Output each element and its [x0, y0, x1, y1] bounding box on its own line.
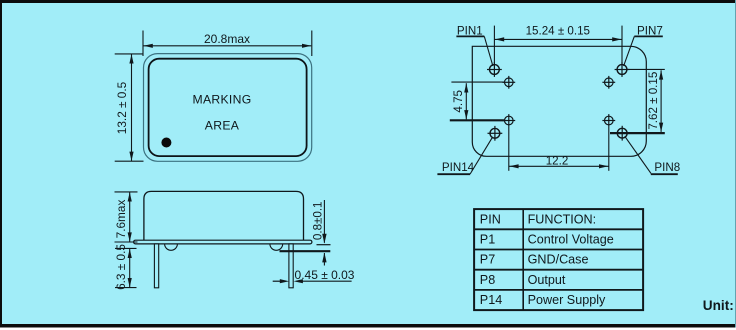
svg-text:Output: Output: [528, 273, 566, 287]
svg-text:PIN7: PIN7: [637, 24, 663, 37]
svg-text:0.8±0.1: 0.8±0.1: [311, 201, 324, 240]
svg-text:20.8max: 20.8max: [204, 32, 250, 46]
svg-text:PIN: PIN: [480, 212, 501, 226]
svg-text:P8: P8: [480, 273, 495, 287]
svg-text:FUNCTION:: FUNCTION:: [528, 212, 597, 226]
svg-text:PIN1: PIN1: [457, 24, 483, 37]
svg-text:GND/Case: GND/Case: [528, 253, 589, 267]
svg-text:P1: P1: [480, 233, 495, 247]
svg-text:13.2 ± 0.5: 13.2 ± 0.5: [115, 81, 129, 134]
svg-text:MARKING: MARKING: [193, 92, 252, 106]
svg-text:PIN8: PIN8: [654, 161, 680, 174]
svg-text:0.45 ± 0.03: 0.45 ± 0.03: [295, 268, 355, 282]
svg-text:P7: P7: [480, 253, 495, 267]
svg-text:12.2: 12.2: [546, 155, 569, 168]
svg-text:Control Voltage: Control Voltage: [528, 233, 614, 247]
svg-text:P14: P14: [480, 293, 502, 307]
svg-text:7.6max: 7.6max: [114, 200, 128, 239]
svg-text:4.75: 4.75: [452, 90, 465, 113]
svg-text:15.24 ± 0.15: 15.24 ± 0.15: [526, 24, 590, 37]
svg-text:Unit:: Unit:: [703, 298, 734, 313]
svg-text:6.3 ± 0.5: 6.3 ± 0.5: [114, 244, 128, 290]
svg-text:Power Supply: Power Supply: [528, 293, 606, 307]
svg-text:AREA: AREA: [205, 119, 240, 133]
svg-text:7.62 ± 0.15: 7.62 ± 0.15: [647, 72, 660, 130]
svg-text:PIN14: PIN14: [442, 161, 475, 174]
